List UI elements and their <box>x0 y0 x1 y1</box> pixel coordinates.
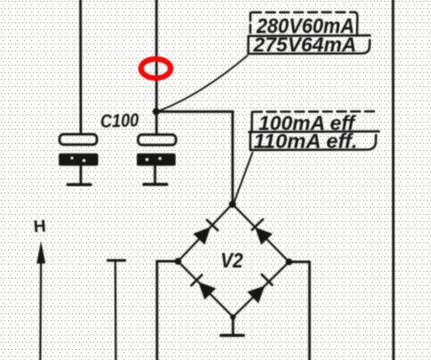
wire: node to right horizontal <box>156 110 233 113</box>
diode top-right arm (points to top vertex) <box>255 227 273 245</box>
annotation box: separator line between 280V and 275V boxes <box>249 34 370 37</box>
annotation box 110mA: left border <box>249 132 251 150</box>
capacitor C100 left unit: bottom plate (filled) <box>59 153 98 165</box>
annotation box 280V60mA: right border <box>355 12 357 35</box>
node: bridge bottom vertex dot <box>230 314 236 320</box>
capacitor C100 left unit: top plate <box>60 134 98 144</box>
wire: middle bottom vertical <box>114 261 117 360</box>
node: bridge top vertex dot <box>229 201 236 208</box>
annotation box 280V60mA: left border <box>249 13 251 36</box>
capacitor C100 right unit: top plate <box>138 135 176 145</box>
node: bridge right vertex dot <box>286 259 293 266</box>
diode top-left arm (points to top vertex) <box>193 227 211 245</box>
annotation box 275V64mA: bottom border with right corner <box>249 40 370 54</box>
annotation box 110mA: bottom border with right corner <box>251 135 376 150</box>
svg-text:C100: C100 <box>100 109 140 131</box>
annotation box 100mA: top dashed border <box>253 110 377 113</box>
ground: right capacitor ground bar <box>144 183 167 186</box>
ground: bridge bottom ground bar <box>221 334 244 337</box>
wire: leader line from bridge top vertex to 110mA box <box>234 153 253 203</box>
wire: right vertical line full height <box>392 0 395 360</box>
diode bottom-right arm (points to right vertex) <box>247 286 265 304</box>
svg-text:H: H <box>33 216 47 236</box>
svg-text:110mA eff.: 110mA eff. <box>254 131 358 153</box>
arrow H: shaft <box>39 256 42 360</box>
wire: bridge right vertex to right, then down <box>289 262 310 360</box>
wire: bridge left vertex to left, then down <box>157 261 178 360</box>
svg-text:V2: V2 <box>221 250 244 273</box>
wire: leader line from node to 275V64mA box <box>160 56 248 111</box>
wire: right capacitor lower stem <box>154 166 157 184</box>
capacitor C100 right unit: bottom plate (filled) <box>137 153 176 165</box>
wire: left vertical from top edge to C plate <box>79 0 82 134</box>
wire: second vertical from top edge to C100 plate <box>155 0 158 134</box>
arrow H: arrowhead <box>37 241 46 264</box>
annotation box 100mA: left border <box>251 112 253 131</box>
wire: left capacitor lower stem <box>80 166 83 184</box>
diode bottom-left arm (points to left vertex) <box>198 282 216 300</box>
wire: vertical down to bridge top vertex <box>231 112 234 203</box>
node: bridge left vertex dot <box>175 258 182 265</box>
annotation box 275V64mA: left border <box>247 36 249 54</box>
svg-text:275V64mA: 275V64mA <box>252 35 356 57</box>
annotation box 280V60mA: top dashed border <box>252 11 355 13</box>
annotation: red circle marker on wire <box>141 59 171 78</box>
node: junction dot on second vertical wire <box>153 108 160 115</box>
annotation box: separator line between 100mA and 110mA boxes <box>249 130 379 133</box>
ground: left capacitor ground bar <box>68 183 91 186</box>
terminal: plate bar with vertical line (middle bottom) <box>108 259 125 262</box>
bridge rectifier V2: diamond outline <box>178 204 289 317</box>
wire: bridge bottom stem <box>232 317 235 335</box>
